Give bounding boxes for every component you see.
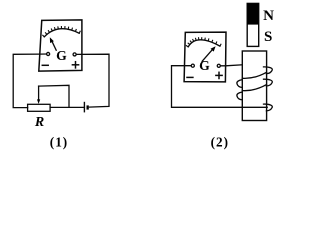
svg-text:(2): (2) <box>211 135 229 150</box>
svg-text:N: N <box>263 8 274 24</box>
svg-text:G: G <box>56 48 67 63</box>
svg-text:R: R <box>34 115 44 130</box>
svg-text:S: S <box>264 29 272 45</box>
svg-text:G: G <box>199 58 210 73</box>
svg-text:(1): (1) <box>50 135 68 150</box>
